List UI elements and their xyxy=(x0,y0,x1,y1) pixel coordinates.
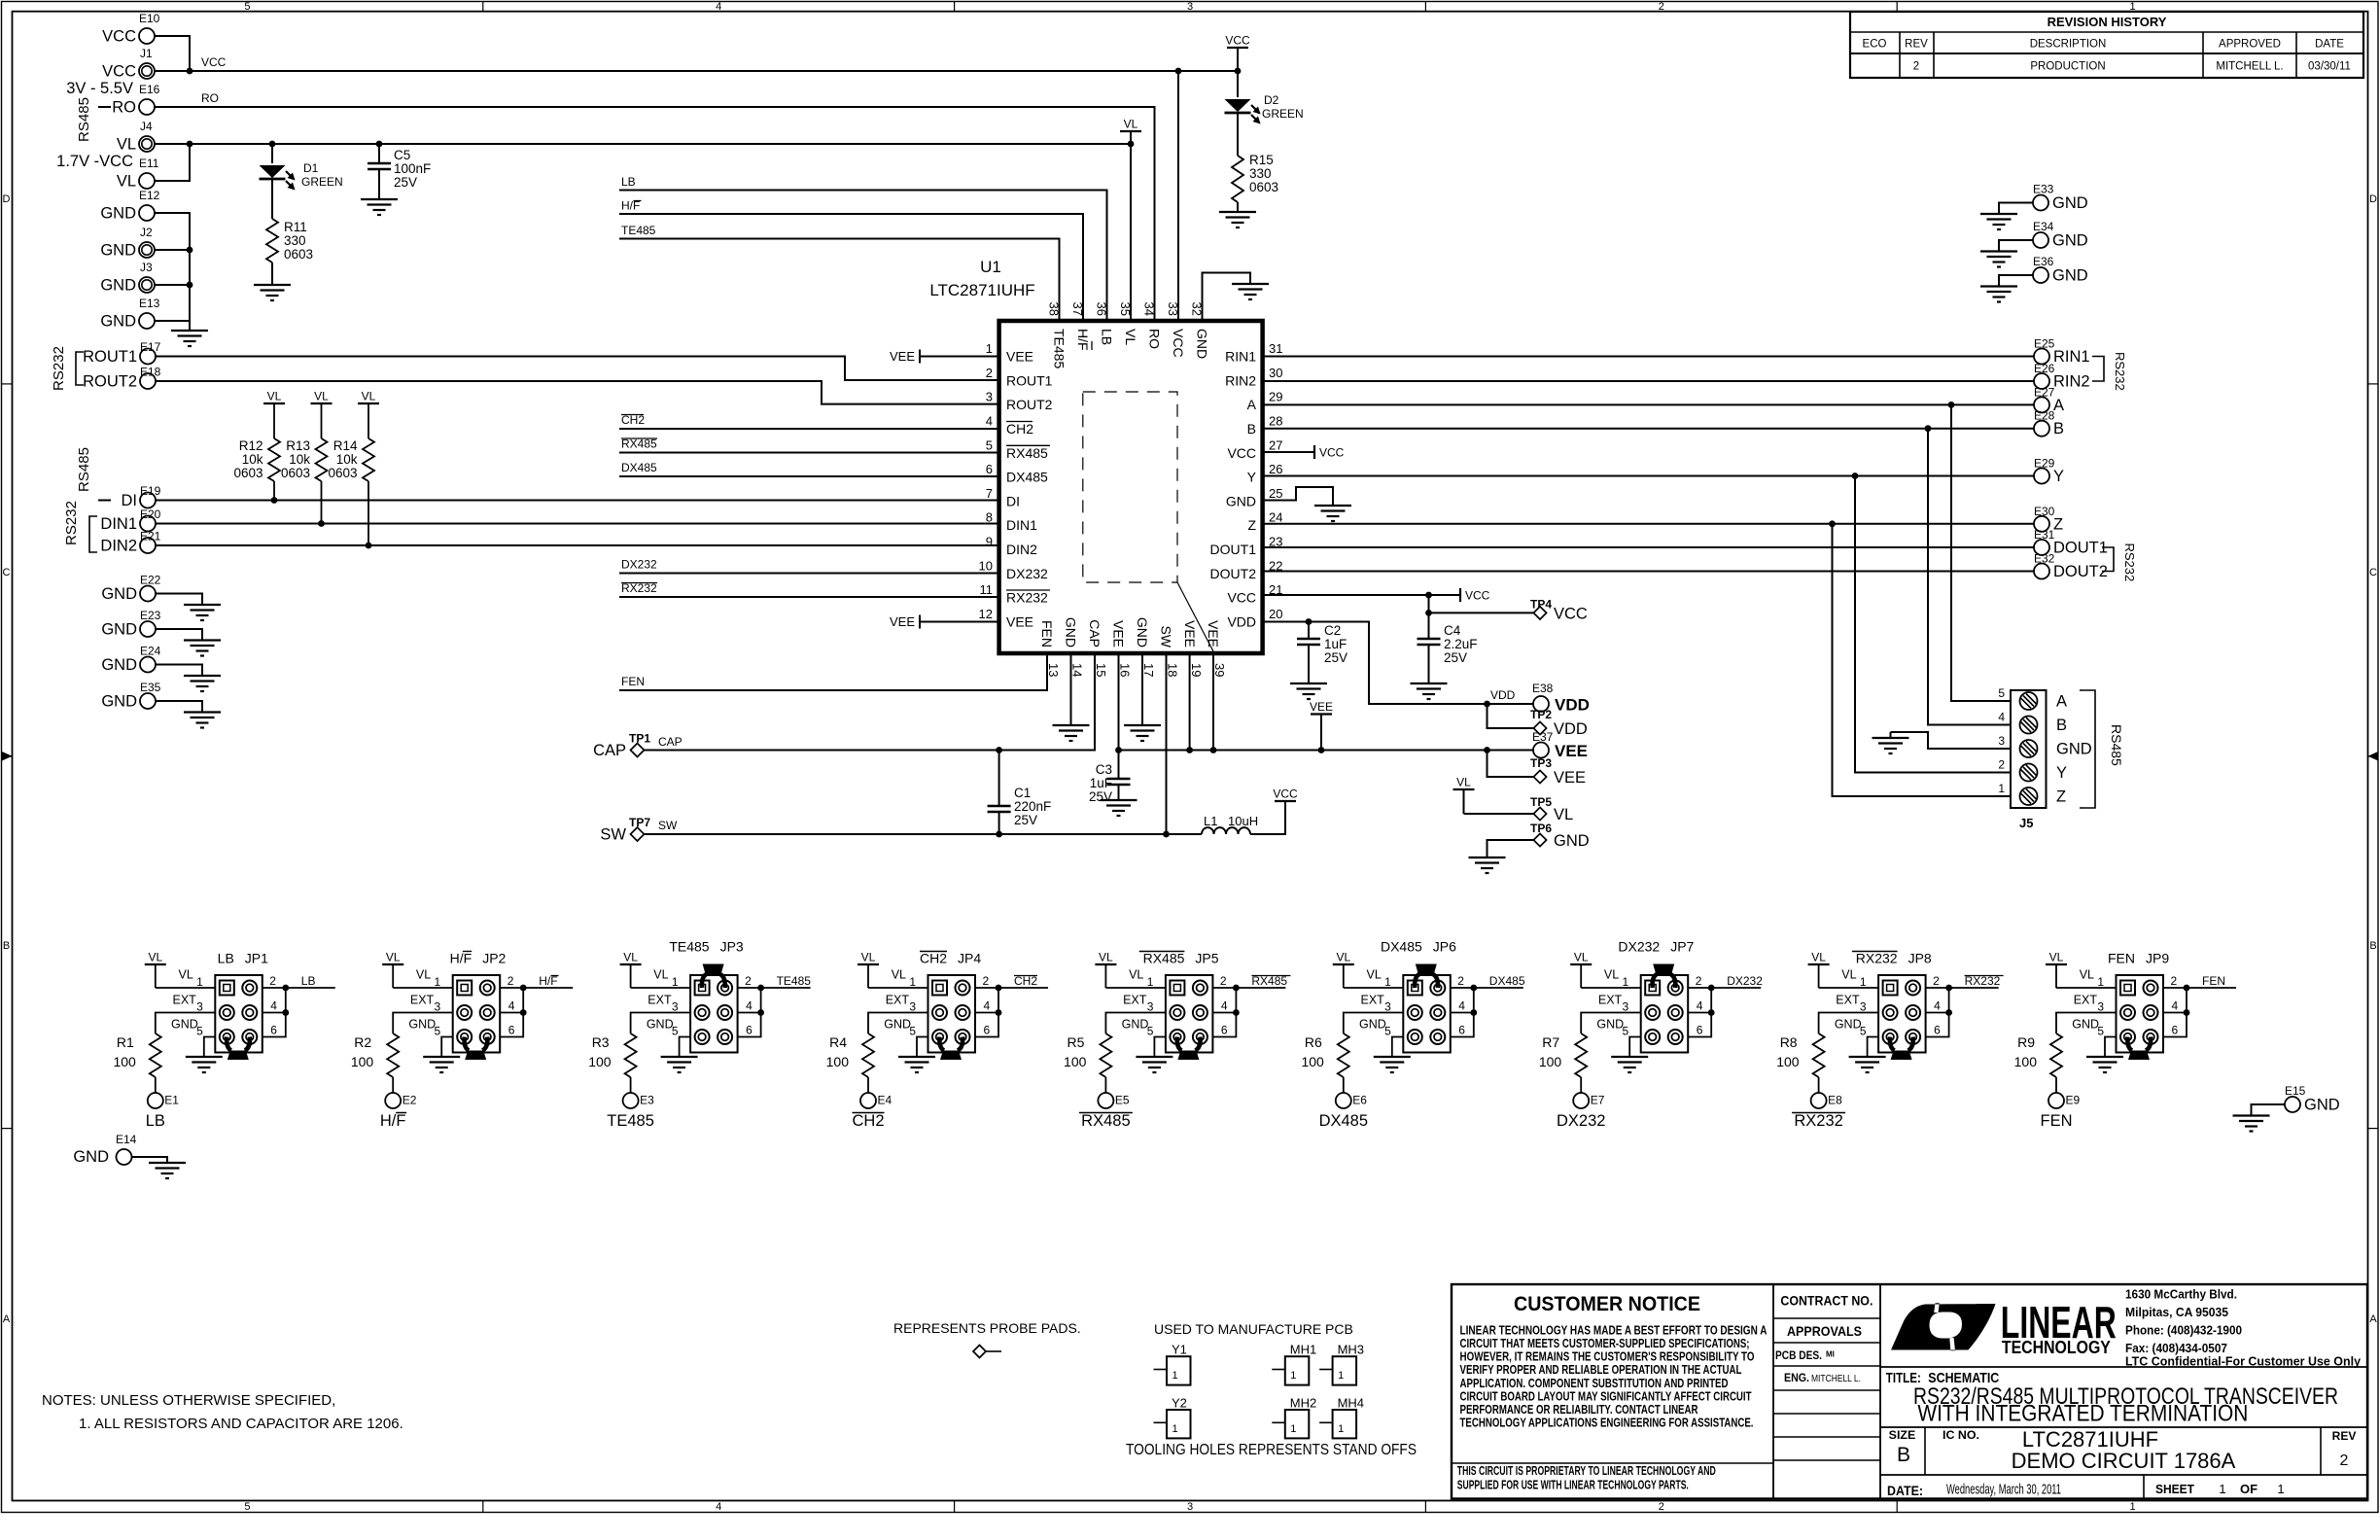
connector J5 (RS485 terminal block) xyxy=(1998,686,2091,830)
svg-text:GND: GND xyxy=(101,585,137,603)
svg-text:6: 6 xyxy=(1934,1024,1941,1037)
svg-text:E16: E16 xyxy=(139,83,160,96)
wire JP1 pin3 to R1 xyxy=(156,1013,216,1034)
svg-text:E9: E9 xyxy=(2066,1094,2081,1107)
wire JP1 pin5 to ground xyxy=(204,1037,216,1058)
svg-text:E29: E29 xyxy=(2034,457,2055,471)
wire E24 to ground xyxy=(156,665,202,677)
svg-text:4: 4 xyxy=(508,999,515,1013)
svg-text:JP6: JP6 xyxy=(1433,939,1456,955)
svg-text:TE485: TE485 xyxy=(1052,329,1067,368)
svg-text:GND: GND xyxy=(647,1018,674,1032)
svg-text:0603: 0603 xyxy=(233,466,262,480)
svg-text:TP2: TP2 xyxy=(1530,708,1552,721)
svg-text:15: 15 xyxy=(1094,663,1108,677)
capacitor C2 1uF xyxy=(1297,622,1347,684)
terminal E16 (RO) xyxy=(112,83,159,117)
wire DIN2 net (E21 to pin9) xyxy=(156,544,999,546)
svg-text:TP7: TP7 xyxy=(629,816,650,829)
wire E33 to ground xyxy=(1999,203,2033,215)
title block xyxy=(1452,1284,2367,1499)
svg-text:14: 14 xyxy=(1070,663,1085,677)
svg-text:E33: E33 xyxy=(2033,183,2054,196)
svg-text:4: 4 xyxy=(986,413,993,428)
terminal E14 (GND) xyxy=(73,1133,136,1166)
svg-text:GND: GND xyxy=(2052,194,2088,212)
terminal E36 (GND) xyxy=(2033,255,2088,285)
svg-text:10k: 10k xyxy=(336,452,358,467)
svg-text:JP5: JP5 xyxy=(1195,951,1218,966)
svg-text:2: 2 xyxy=(507,974,514,988)
wire DOUT2 net (pin22 to E32) xyxy=(1263,571,2034,573)
svg-text:7: 7 xyxy=(986,486,993,501)
svg-text:VCC: VCC xyxy=(1273,787,1298,801)
svg-text:U1: U1 xyxy=(980,258,1001,276)
terminal E5 (RX485) xyxy=(1079,1093,1133,1130)
wire JP8 pin3 to R8 xyxy=(1819,1013,1879,1034)
svg-text:VL: VL xyxy=(1604,968,1619,982)
svg-text:100: 100 xyxy=(588,1054,612,1069)
svg-text:VEE: VEE xyxy=(1554,769,1586,787)
svg-text:DX232: DX232 xyxy=(1727,974,1763,988)
jumper shunt on JP9 xyxy=(2127,1037,2151,1061)
ground (below R15) xyxy=(1219,211,1256,213)
svg-text:ECO: ECO xyxy=(1863,39,1887,51)
svg-text:R11: R11 xyxy=(284,220,307,234)
wire JP9 pin5 to ground xyxy=(2105,1037,2117,1058)
size / IC no / rev cells xyxy=(1889,1427,2357,1473)
wire VL to JP4 pin1 xyxy=(868,987,928,989)
terminal E33 (GND) xyxy=(2033,183,2088,213)
ground (at E24) xyxy=(184,675,221,677)
test point TP3 (VEE) xyxy=(1530,756,1586,787)
pin 15 CAP (U1 bottom) xyxy=(1087,619,1108,677)
svg-text:E26: E26 xyxy=(2034,362,2055,375)
svg-text:E3: E3 xyxy=(640,1094,654,1107)
svg-text:220nF: 220nF xyxy=(1014,799,1051,814)
pin 3 ROUT2 (U1 left) xyxy=(986,390,1053,413)
svg-text:Wednesday, March 30, 2011: Wednesday, March 30, 2011 xyxy=(1946,1483,2061,1498)
svg-text:1: 1 xyxy=(909,975,916,989)
wire VL net (J4 to pin35) xyxy=(155,144,1131,321)
svg-text:19: 19 xyxy=(1189,663,1204,677)
capacitor C5 100nF xyxy=(367,144,431,199)
svg-text:38: 38 xyxy=(1047,302,1062,316)
svg-text:4: 4 xyxy=(1458,999,1465,1013)
power flag VL (JP6) xyxy=(1333,951,1354,989)
jumper shunt on JP2 xyxy=(465,1037,488,1061)
svg-text:30: 30 xyxy=(1269,366,1282,380)
pin 25 GND (U1 right) xyxy=(1226,486,1283,508)
svg-text:C5: C5 xyxy=(394,148,410,162)
svg-text:GND: GND xyxy=(2304,1097,2340,1114)
svg-text:R15: R15 xyxy=(1249,153,1274,167)
svg-text:B: B xyxy=(1897,1444,1910,1466)
jumper JP9 (FEN) xyxy=(2072,951,2178,1053)
inductor L1 10uH xyxy=(1202,814,1258,834)
svg-text:TE485: TE485 xyxy=(777,974,812,988)
terminal E24 (GND) xyxy=(101,645,160,675)
svg-text:1: 1 xyxy=(1384,975,1391,989)
svg-text:JP4: JP4 xyxy=(958,951,981,966)
svg-text:MH4: MH4 xyxy=(1338,1396,1364,1411)
svg-text:1: 1 xyxy=(2219,1482,2225,1496)
ground (at E36) xyxy=(1980,285,2017,287)
wire pin32 GND to ground xyxy=(1203,273,1251,322)
svg-text:4: 4 xyxy=(1697,999,1703,1013)
wire VDD net (pin20 to E38) xyxy=(1263,622,1535,705)
svg-text:Milpitas, CA 95035: Milpitas, CA 95035 xyxy=(2125,1306,2228,1319)
svg-text:DATE: DATE xyxy=(2315,39,2344,51)
svg-text:GND: GND xyxy=(884,1018,911,1032)
svg-text:E31: E31 xyxy=(2034,528,2055,542)
svg-text:ROUT2: ROUT2 xyxy=(83,373,137,391)
svg-text:DESCRIPTION: DESCRIPTION xyxy=(2030,39,2107,51)
svg-text:SIZE: SIZE xyxy=(1889,1428,1916,1442)
ground (at E35) xyxy=(184,711,221,713)
ground (pin25) xyxy=(1314,505,1351,507)
svg-text:VCC: VCC xyxy=(1554,606,1588,623)
svg-text:VEE: VEE xyxy=(890,614,915,629)
svg-text:4: 4 xyxy=(1998,711,2005,724)
svg-text:ROUT1: ROUT1 xyxy=(83,348,137,366)
svg-text:VL: VL xyxy=(267,390,282,403)
wire ROUT1 net (E17 to pin2) xyxy=(156,357,999,381)
power flag VL (JP8) xyxy=(1808,951,1830,989)
svg-text:1: 1 xyxy=(2277,1482,2284,1496)
svg-text:E15: E15 xyxy=(2285,1084,2306,1098)
ground (below C3) xyxy=(1101,799,1137,801)
pin 38 TE485 (U1 top) xyxy=(1047,302,1067,369)
svg-text:Y1: Y1 xyxy=(1172,1343,1187,1357)
ground (JP4) xyxy=(898,1056,935,1058)
svg-text:REPRESENTS PROBE PADS.: REPRESENTS PROBE PADS. xyxy=(893,1320,1081,1336)
svg-text:VEE: VEE xyxy=(1182,620,1198,647)
terminal E30 (Z) xyxy=(2034,505,2063,534)
svg-text:3V - 5.5V: 3V - 5.5V xyxy=(66,80,133,97)
svg-text:DIN2: DIN2 xyxy=(1006,542,1037,557)
resistor R12 10k xyxy=(233,438,280,501)
svg-text:REV: REV xyxy=(2332,1429,2357,1443)
svg-text:25V: 25V xyxy=(1089,789,1112,804)
svg-text:5: 5 xyxy=(672,1025,679,1038)
terminal E1 (LB) xyxy=(146,1093,180,1130)
svg-text:VL: VL xyxy=(1811,951,1826,964)
resistor R13 10k xyxy=(281,438,328,524)
resistor R9 100 xyxy=(2014,1033,2062,1094)
power flag VCC (above D2) xyxy=(1225,34,1250,72)
svg-text:RX485: RX485 xyxy=(1006,445,1048,461)
svg-text:4: 4 xyxy=(1221,999,1228,1013)
svg-text:CAP: CAP xyxy=(658,735,682,749)
svg-text:10k: 10k xyxy=(289,452,310,467)
jumper JP2 (H/F) xyxy=(408,951,514,1053)
svg-text:E14: E14 xyxy=(116,1133,137,1146)
svg-text:VL: VL xyxy=(1841,968,1856,982)
svg-text:GND: GND xyxy=(101,621,137,639)
svg-text:GND: GND xyxy=(408,1018,436,1032)
power flag VL (at pin35) xyxy=(1120,118,1141,145)
svg-text:17: 17 xyxy=(1141,663,1156,677)
svg-text:PCB DES.: PCB DES. xyxy=(1775,1348,1822,1362)
mounting hole MH4 xyxy=(1319,1396,1364,1439)
svg-text:4: 4 xyxy=(270,999,277,1013)
terminal E9 (FEN) xyxy=(2041,1093,2081,1130)
svg-text:6: 6 xyxy=(984,1024,991,1037)
wire DX232 net stub to pin10 xyxy=(619,573,999,575)
svg-text:3: 3 xyxy=(1187,1501,1193,1513)
svg-text:JP9: JP9 xyxy=(2146,951,2169,966)
wire DX485 net from JP6 pin2 xyxy=(1451,987,1523,989)
mounting hole MH2 xyxy=(1272,1396,1316,1439)
terminal E8 (RX232) xyxy=(1792,1093,1845,1130)
svg-text:EXT: EXT xyxy=(2074,994,2098,1007)
svg-text:E4: E4 xyxy=(878,1094,892,1107)
svg-text:GND: GND xyxy=(100,313,136,331)
svg-text:E34: E34 xyxy=(2033,220,2054,233)
svg-text:GND: GND xyxy=(1554,832,1590,850)
jumper JP5 (RX485) xyxy=(1122,951,1228,1053)
svg-text:D2: D2 xyxy=(1264,93,1279,107)
jumper JP6 (DX485) xyxy=(1359,939,1465,1053)
svg-text:1: 1 xyxy=(986,341,993,356)
svg-text:330: 330 xyxy=(1249,166,1272,181)
svg-text:6: 6 xyxy=(1221,1024,1228,1037)
wire VL to JP6 pin1 xyxy=(1344,987,1404,989)
svg-text:B: B xyxy=(1247,421,1256,437)
pin 31 RIN1 (U1 right) xyxy=(1225,341,1282,365)
wire TP4 branch xyxy=(1428,595,1430,639)
svg-text:GND: GND xyxy=(100,277,136,295)
svg-text:GND: GND xyxy=(1226,493,1256,508)
wire TE485 net from JP3 pin2 xyxy=(738,987,811,989)
svg-text:GND: GND xyxy=(1835,1018,1862,1032)
svg-text:6: 6 xyxy=(986,462,993,476)
svg-text:RS485: RS485 xyxy=(76,97,92,142)
resistor R8 100 xyxy=(1776,1033,1824,1094)
pin 16 VEE (U1 bottom) xyxy=(1111,620,1133,677)
svg-text:2: 2 xyxy=(1998,758,2005,772)
capacitor C3 1uF xyxy=(1089,653,1131,804)
pin 7 DI (U1 left) xyxy=(986,486,1020,508)
svg-text:GND: GND xyxy=(73,1148,109,1166)
svg-text:E18: E18 xyxy=(140,366,161,379)
svg-text:100nF: 100nF xyxy=(394,161,431,176)
pin 5 RX485 (U1 left) xyxy=(986,437,1048,461)
svg-text:VL: VL xyxy=(861,951,876,964)
svg-text:3: 3 xyxy=(1384,1000,1391,1014)
ground (JP1) xyxy=(186,1056,223,1058)
wire VCC net (J1 to D2/pin33) xyxy=(155,70,1238,72)
terminal E4 (CH2) xyxy=(852,1093,892,1130)
svg-text:J5: J5 xyxy=(2019,816,2033,830)
svg-text:DIN2: DIN2 xyxy=(100,538,137,555)
svg-text:0603: 0603 xyxy=(1249,180,1278,194)
jumper JP7 (DX232) xyxy=(1596,939,1702,1053)
svg-text:RO: RO xyxy=(1147,329,1163,349)
svg-text:E22: E22 xyxy=(140,574,161,587)
svg-text:R9: R9 xyxy=(2017,1034,2035,1050)
terminal E11 (VL) xyxy=(117,157,159,191)
terminal E18 (ROUT2) xyxy=(83,366,161,391)
svg-text:FEN: FEN xyxy=(2202,974,2225,988)
wire JP9 pin3 to R9 xyxy=(2056,1013,2117,1034)
svg-text:27: 27 xyxy=(1269,437,1282,452)
svg-text:2: 2 xyxy=(1913,61,1919,73)
svg-text:VEE: VEE xyxy=(890,349,915,364)
svg-text:EXT: EXT xyxy=(410,994,435,1007)
pin 24 Z (U1 right) xyxy=(1247,510,1282,534)
svg-text:E1: E1 xyxy=(164,1094,179,1107)
svg-text:RIN1: RIN1 xyxy=(2053,348,2090,366)
svg-text:12: 12 xyxy=(979,607,993,621)
svg-text:C1: C1 xyxy=(1014,786,1031,800)
power flag VCC (after L1) xyxy=(1275,800,1296,802)
svg-text:1.7V -VCC: 1.7V -VCC xyxy=(56,153,133,170)
wire Y net (pin26 to E29/J5) xyxy=(1263,475,2034,477)
svg-text:CH2: CH2 xyxy=(1006,421,1033,437)
svg-text:DOUT1: DOUT1 xyxy=(1210,542,1257,557)
svg-text:4: 4 xyxy=(746,999,752,1013)
svg-text:2.2uF: 2.2uF xyxy=(1444,637,1478,651)
svg-text:RS485: RS485 xyxy=(2109,724,2124,766)
svg-text:PERFORMANCE OR RELIABILITY.: PERFORMANCE OR RELIABILITY. CONTACT LINE… xyxy=(1460,1403,1698,1417)
svg-text:TP4: TP4 xyxy=(1530,598,1552,612)
wire DOUT1 net (pin23 to E31) xyxy=(1263,546,2034,548)
svg-text:VL: VL xyxy=(623,951,638,964)
jumper shunt on JP1 xyxy=(227,1037,250,1061)
svg-text:2: 2 xyxy=(745,974,752,988)
svg-text:6: 6 xyxy=(2172,1024,2179,1037)
svg-text:IC NO.: IC NO. xyxy=(1942,1428,1979,1442)
Linear Technology logo xyxy=(1891,1297,2117,1357)
svg-text:3: 3 xyxy=(909,1000,916,1014)
resistor R11 330 xyxy=(266,219,313,285)
svg-text:100: 100 xyxy=(2014,1054,2038,1069)
svg-text:5: 5 xyxy=(1147,1025,1154,1038)
ground (JP7) xyxy=(1611,1056,1648,1058)
svg-text:JP7: JP7 xyxy=(1670,939,1694,955)
power flag VL (above R14) xyxy=(358,390,379,439)
svg-text:Y2: Y2 xyxy=(1172,1396,1187,1411)
svg-text:DX485: DX485 xyxy=(1489,974,1525,988)
pin 17 GND (U1 bottom) xyxy=(1135,617,1156,678)
svg-text:31: 31 xyxy=(1269,341,1282,356)
svg-text:VDD: VDD xyxy=(1227,614,1256,630)
svg-text:25V: 25V xyxy=(1444,650,1467,665)
svg-text:CAP: CAP xyxy=(593,742,626,759)
svg-text:Z: Z xyxy=(1247,517,1256,533)
terminal E7 (DX232) xyxy=(1557,1093,1605,1130)
wire pin14 GND stub xyxy=(1070,653,1072,725)
svg-text:VEE: VEE xyxy=(1111,620,1127,647)
wire TP2 branch xyxy=(1487,704,1534,728)
resistor R15 330 xyxy=(1232,153,1278,212)
ground (at E33) xyxy=(1980,213,2017,215)
connector J1 (VCC input) xyxy=(66,47,155,97)
svg-text:VL: VL xyxy=(314,390,329,403)
svg-text:E35: E35 xyxy=(140,681,161,694)
svg-text:4: 4 xyxy=(2172,999,2179,1013)
svg-text:JP8: JP8 xyxy=(1908,951,1932,966)
terminal E28 (B) xyxy=(2034,409,2064,438)
svg-text:9: 9 xyxy=(986,535,993,549)
pin 27 VCC (U1 right) xyxy=(1227,437,1282,461)
svg-text:C2: C2 xyxy=(1324,623,1341,638)
capacitor C1 220nF xyxy=(988,751,1052,835)
svg-text:LB: LB xyxy=(218,951,234,966)
jumper shunt on JP7 xyxy=(1653,964,1676,989)
terminal E2 (H/F) xyxy=(380,1093,417,1130)
pin 28 B (U1 right) xyxy=(1247,413,1283,437)
svg-text:SW: SW xyxy=(600,826,626,844)
svg-text:4: 4 xyxy=(716,1501,721,1513)
wire JP4 pin5 to ground xyxy=(917,1037,928,1058)
svg-text:VCC: VCC xyxy=(201,55,227,69)
svg-text:25V: 25V xyxy=(394,175,417,190)
svg-text:OF: OF xyxy=(2240,1482,2257,1496)
svg-text:ROUT1: ROUT1 xyxy=(1006,372,1053,388)
svg-text:GREEN: GREEN xyxy=(1262,107,1304,121)
svg-text:R1: R1 xyxy=(117,1034,134,1050)
svg-text:1uF: 1uF xyxy=(1324,637,1347,651)
svg-text:GND: GND xyxy=(2052,267,2088,285)
ground (pin32) xyxy=(1232,283,1269,285)
svg-text:C3: C3 xyxy=(1096,762,1112,777)
svg-text:11: 11 xyxy=(980,582,994,597)
svg-text:1: 1 xyxy=(1338,1423,1344,1435)
svg-text:DATE:: DATE: xyxy=(1887,1483,1923,1498)
wire JP6 pin5 to ground xyxy=(1392,1037,1404,1058)
svg-text:MH3: MH3 xyxy=(1338,1343,1364,1357)
svg-text:RIN2: RIN2 xyxy=(1225,372,1256,388)
svg-text:CH2: CH2 xyxy=(852,1112,884,1130)
svg-text:DIN1: DIN1 xyxy=(100,515,137,533)
svg-text:E11: E11 xyxy=(139,157,159,170)
svg-text:MITCHELL L.: MITCHELL L. xyxy=(2216,61,2283,73)
svg-text:R13: R13 xyxy=(286,438,310,453)
connector J3 (GND) xyxy=(100,261,155,295)
svg-text:J3: J3 xyxy=(140,261,153,274)
resistor R1 100 xyxy=(113,1033,160,1094)
jumper shunt on JP3 xyxy=(702,964,725,989)
svg-text:TP1: TP1 xyxy=(629,732,650,746)
power flag VL (JP1) xyxy=(145,951,166,989)
svg-text:25: 25 xyxy=(1269,486,1282,501)
svg-text:RO: RO xyxy=(201,91,219,105)
svg-text:D1: D1 xyxy=(303,161,319,175)
svg-text:A: A xyxy=(2056,693,2067,711)
svg-text:8: 8 xyxy=(986,510,993,525)
svg-text:R4: R4 xyxy=(829,1034,847,1050)
wire VL to JP3 pin1 xyxy=(631,987,691,989)
svg-text:VERIFY PROPER AND RELIABLE OPE: VERIFY PROPER AND RELIABLE OPERATION IN … xyxy=(1460,1363,1742,1377)
svg-text:100: 100 xyxy=(1539,1054,1562,1069)
svg-text:JP2: JP2 xyxy=(482,951,506,966)
svg-text:VEE: VEE xyxy=(1206,620,1221,647)
svg-text:VL: VL xyxy=(386,951,401,964)
wire TE485 net stub to pin38 xyxy=(619,239,1060,322)
pin 26 Y (U1 right) xyxy=(1247,462,1283,485)
ground (below R11) xyxy=(254,284,291,286)
svg-text:GND: GND xyxy=(101,693,137,711)
svg-text:H/F: H/F xyxy=(450,951,472,966)
wire J5 pin3 GND xyxy=(1891,732,2012,749)
resistor R4 100 xyxy=(826,1033,874,1094)
test point TP4 (VCC) xyxy=(1530,598,1588,623)
wire CH2 net stub to pin4 xyxy=(619,428,999,430)
svg-text:5: 5 xyxy=(909,1025,916,1038)
